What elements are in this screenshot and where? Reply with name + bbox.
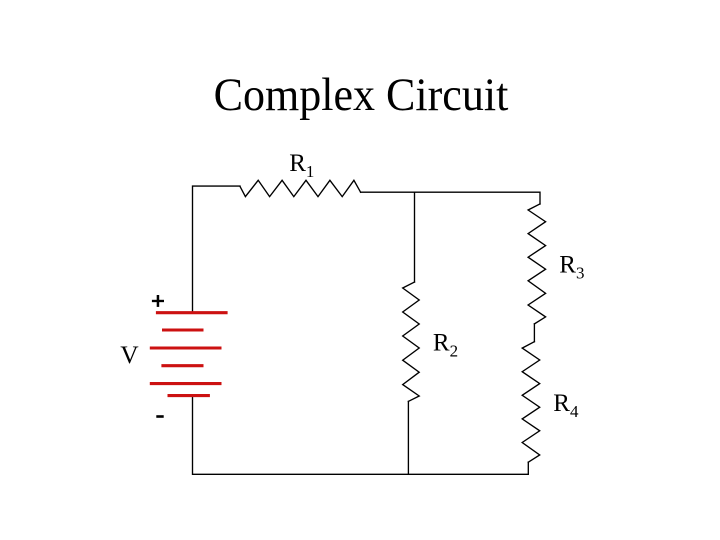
svg-text:Complex Circuit: Complex Circuit	[214, 67, 509, 120]
svg-text:V: V	[120, 340, 139, 369]
